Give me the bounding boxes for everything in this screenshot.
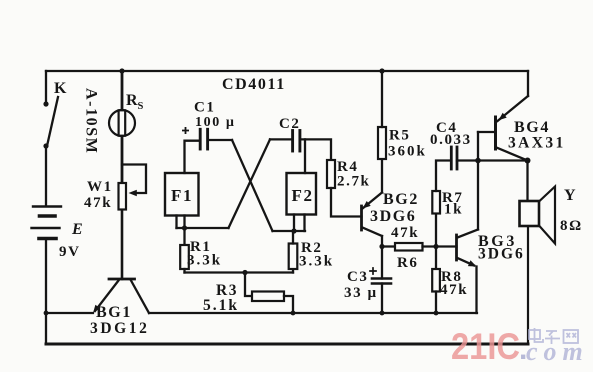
svg-text:CD4011: CD4011 xyxy=(222,76,286,93)
svg-text:3.3k: 3.3k xyxy=(299,254,334,270)
svg-text:21IC: 21IC xyxy=(451,326,520,367)
svg-text:0.033: 0.033 xyxy=(430,132,472,148)
svg-text:8Ω: 8Ω xyxy=(560,218,583,234)
svg-text:C1: C1 xyxy=(194,100,216,116)
svg-text:BG4: BG4 xyxy=(514,119,550,136)
svg-text:R6: R6 xyxy=(397,255,419,271)
svg-text:C3: C3 xyxy=(347,269,369,285)
svg-text:BG2: BG2 xyxy=(383,191,419,208)
svg-text:W1: W1 xyxy=(87,179,113,195)
svg-text:com: com xyxy=(526,337,589,366)
svg-text:3DG6: 3DG6 xyxy=(370,208,416,225)
svg-text:47k: 47k xyxy=(440,282,468,298)
svg-text:5.1k: 5.1k xyxy=(203,297,239,314)
svg-text:S: S xyxy=(138,101,145,112)
svg-text:A-10SM: A-10SM xyxy=(83,88,100,154)
svg-text:47k: 47k xyxy=(84,195,112,211)
svg-text:3DG6: 3DG6 xyxy=(478,246,525,263)
svg-text:F2: F2 xyxy=(292,186,314,205)
svg-text:1k: 1k xyxy=(444,202,463,218)
svg-text:2.7k: 2.7k xyxy=(337,174,371,190)
svg-text:E: E xyxy=(71,221,84,238)
svg-text:F1: F1 xyxy=(171,186,193,205)
svg-text:47k: 47k xyxy=(391,225,419,241)
svg-text:360k: 360k xyxy=(388,144,427,160)
svg-text:R5: R5 xyxy=(389,128,411,144)
svg-text:K: K xyxy=(54,80,68,97)
svg-text:C2: C2 xyxy=(279,116,301,132)
svg-text:100 µ: 100 µ xyxy=(195,115,236,130)
svg-text:3.3k: 3.3k xyxy=(187,253,222,269)
svg-text:Y: Y xyxy=(564,187,577,204)
svg-text:9V: 9V xyxy=(59,244,81,260)
svg-text:3DG12: 3DG12 xyxy=(90,320,150,337)
svg-text:BG1: BG1 xyxy=(96,304,132,321)
svg-text:33 µ: 33 µ xyxy=(344,285,378,301)
svg-text:3AX31: 3AX31 xyxy=(508,135,566,152)
